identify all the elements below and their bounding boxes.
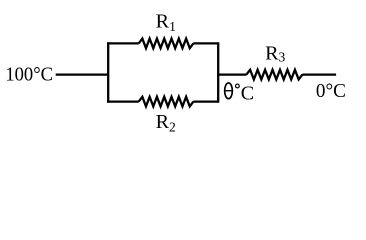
wire: right vertical bar of parallel pair [217, 42, 219, 102]
resistor R3 [246, 70, 302, 80]
resistor R2 [139, 97, 194, 107]
wire: bottom branch right segment [193, 100, 218, 102]
svg-text:0°C: 0°C [316, 80, 346, 102]
wire: bottom branch left segment [107, 100, 139, 102]
svg-text:R1: R1 [156, 11, 176, 34]
svg-text:R3: R3 [265, 42, 285, 64]
node label theta°C : theta oval [225, 83, 233, 99]
wire: top branch right segment [193, 42, 218, 44]
wire: junction node theta to R3 [218, 73, 246, 75]
resistor R1 [139, 39, 194, 49]
node label theta°C : theta crossbar [225, 90, 233, 92]
wire: top branch left segment [107, 42, 139, 44]
svg-text:100°C: 100°C [5, 64, 53, 86]
svg-text:R2: R2 [156, 111, 176, 134]
wire: left vertical bar of parallel pair [107, 42, 109, 102]
node label theta°C : degree ring [236, 84, 240, 88]
wire: right lead to 0°C node [302, 73, 336, 75]
svg-text:C: C [241, 82, 254, 104]
wire: left lead from 100°C node [56, 73, 108, 75]
